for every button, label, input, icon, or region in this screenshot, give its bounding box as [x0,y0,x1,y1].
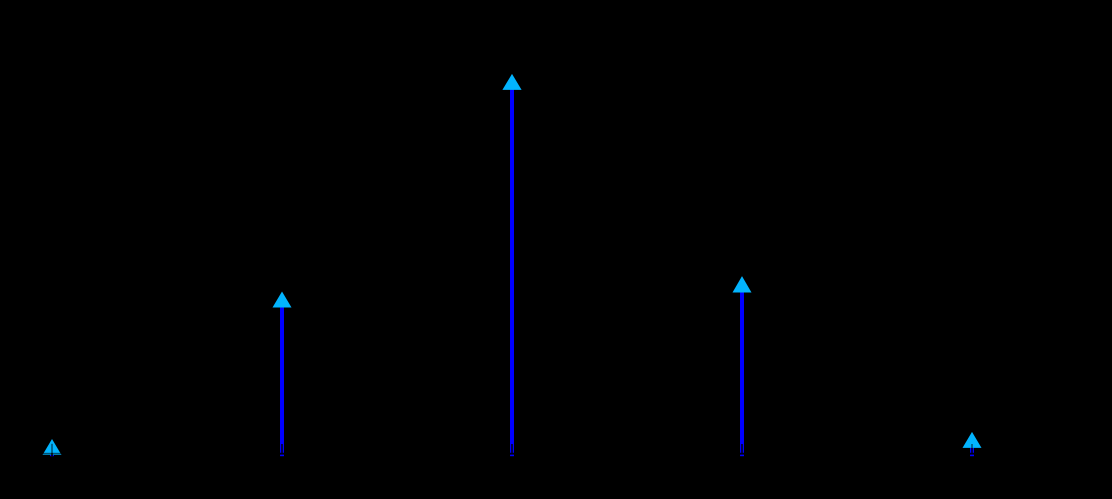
arrowhead impulse 1 [43,439,62,455]
arrowhead impulse 2 [273,292,292,308]
wire stem impulse 5 (far right, small) [970,440,974,456]
wire stem impulse 3 (center, tallest) [510,82,514,456]
tick mark at impulse 4 [741,444,743,453]
tick mark at impulse 2 [281,444,283,453]
axis line (black, drawn over arrows) [0,453,1112,455]
tick mark at impulse 1 (black, overlaps arrowhead then stem) [51,444,53,456]
arrowhead impulse 3 [502,74,521,90]
arrowhead impulse 4 [733,276,752,292]
wire stem impulse 1 (far left, smallest) [50,450,54,456]
arrowhead impulse 5 [963,432,982,448]
wire stem impulse 4 (right mid) [740,285,744,456]
wire stem impulse 2 (left mid) [280,300,284,456]
tick mark at impulse 3 [511,444,513,453]
tick mark at impulse 5 (black, overlaps arrowhead then stem) [971,444,973,453]
